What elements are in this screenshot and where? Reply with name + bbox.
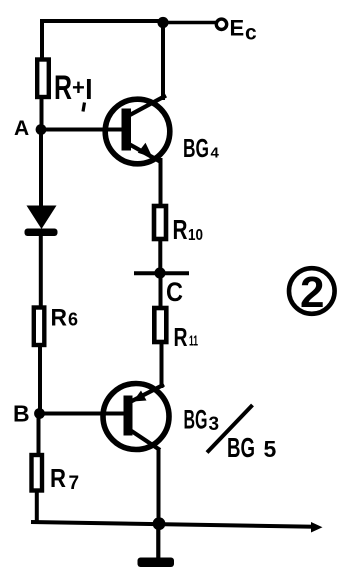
svg-text:l: l — [85, 74, 93, 105]
svg-text:7: 7 — [69, 473, 80, 494]
label R7 — [50, 463, 79, 494]
transistor BG4 — [105, 96, 170, 164]
svg-text:BG: BG — [227, 432, 255, 463]
svg-text:A: A — [14, 117, 29, 140]
wire left vertical top — [40, 19, 44, 59]
svg-text:2: 2 — [300, 268, 324, 317]
resistor R10 — [154, 206, 166, 239]
svg-text:B: B — [13, 401, 30, 427]
node A — [36, 124, 47, 135]
label Ec — [230, 16, 258, 45]
node bottom rail junction — [153, 517, 166, 530]
svg-text:3: 3 — [209, 414, 220, 435]
wire R7 to bottom rail — [35, 490, 39, 523]
label BG3 — [184, 405, 220, 436]
wire bottom rail — [31, 522, 323, 533]
svg-text:R: R — [50, 463, 66, 493]
node C tap line — [134, 267, 189, 278]
transistor BG3 — [103, 384, 169, 451]
label R6 — [51, 305, 79, 332]
wire node C to R11 — [159, 273, 163, 308]
svg-text:R: R — [54, 69, 72, 107]
diode D — [25, 206, 58, 237]
wire BG4 emitter to R10 — [159, 158, 163, 206]
wire diode to R6 — [39, 236, 43, 307]
svg-text:BG: BG — [183, 133, 209, 163]
wire node A to diode — [39, 130, 43, 208]
label slash between BG3 and BG5 — [207, 405, 253, 453]
wire base of BG3 — [40, 412, 126, 416]
label C — [166, 277, 183, 307]
svg-text:10: 10 — [188, 227, 203, 244]
label BG5 — [227, 432, 277, 463]
svg-text:E: E — [230, 16, 245, 41]
resistor R6 — [34, 308, 45, 346]
svg-text:BG: BG — [184, 405, 208, 435]
label BG4 — [183, 133, 220, 163]
svg-text:R: R — [51, 305, 68, 332]
label A — [14, 117, 29, 140]
svg-text:5: 5 — [264, 436, 277, 462]
svg-text:4: 4 — [211, 145, 220, 162]
wire R6 to node B — [38, 345, 42, 414]
wire node B to R7 — [37, 414, 41, 456]
resistor Rt1 — [37, 60, 49, 98]
wire middle vertical from junction to BG4 collector — [161, 23, 165, 101]
figure number 2 — [289, 268, 335, 317]
label R11 — [174, 322, 199, 352]
wire base of BG4 — [41, 128, 124, 132]
terminal Ec open circle — [216, 19, 226, 29]
node B — [34, 408, 45, 419]
label R10 — [173, 214, 204, 245]
ground — [138, 524, 175, 567]
wire BG3 collector to bottom rail — [157, 449, 161, 525]
svg-text:R: R — [174, 322, 188, 352]
svg-text:6: 6 — [68, 310, 78, 330]
wire Rt1 to node A — [40, 97, 44, 130]
wire from junction to Ec terminal — [163, 21, 216, 25]
svg-text:c: c — [245, 22, 257, 45]
resistor R7 — [32, 455, 43, 491]
wire R11 to BG3 emitter — [160, 341, 164, 388]
wire R10 to node C — [158, 238, 162, 273]
svg-text:C: C — [166, 277, 183, 307]
wire top rail from left branch to Ec junction — [40, 19, 163, 23]
svg-text:+: + — [72, 75, 85, 100]
node Ec junction — [157, 17, 168, 28]
svg-text:11: 11 — [189, 333, 198, 350]
resistor R11 — [154, 308, 166, 342]
label Rt1 — [54, 69, 93, 112]
label B — [13, 401, 30, 427]
svg-text:R: R — [173, 214, 188, 245]
